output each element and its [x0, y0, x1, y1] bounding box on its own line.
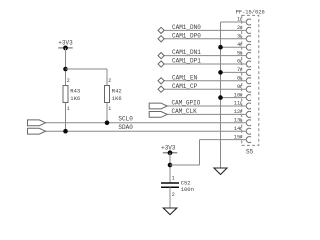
- svg-text:CAM_CLK: CAM_CLK: [172, 108, 198, 115]
- svg-text:R42: R42: [112, 88, 122, 95]
- wire SCL0 net: [46, 122, 247, 124]
- port tag CAM_CLK: [149, 112, 167, 118]
- connector S5 pin 9 contact: [246, 86, 251, 92]
- svg-text:CAM1_DP1: CAM1_DP1: [172, 58, 201, 65]
- connector S5 dashed body: [242, 15, 259, 145]
- pin number 2: [237, 25, 241, 31]
- connector S5 pin 6 contact: [246, 61, 251, 67]
- port diamond CAM1_EN: [158, 78, 164, 84]
- port tag SCL0: [28, 120, 46, 126]
- pin number 14: [234, 126, 241, 132]
- wire CAM_GPIO to pin 11: [167, 105, 246, 107]
- pin number 11: [234, 101, 241, 107]
- wire CAM1_EN to pin 8: [164, 80, 246, 82]
- svg-text:2: 2: [108, 78, 111, 84]
- pin number 6: [237, 59, 241, 65]
- svg-text:+3V3: +3V3: [58, 40, 73, 47]
- junction R42-SCL0: [105, 121, 110, 126]
- junction +3V3 / pin15 branch: [168, 163, 173, 168]
- wire GND to pin 4: [221, 46, 247, 48]
- wire CAM1_DP0 to pin 3: [164, 38, 246, 40]
- connector S5 pin 2 contact: [246, 27, 251, 33]
- resistor R43: [63, 86, 68, 103]
- wire CAM1_DN1 to pin 5: [164, 55, 246, 57]
- wire +3V3 branch horizontal: [170, 164, 200, 166]
- pin number 7: [237, 67, 241, 73]
- connector S5 pin 1 contact: [246, 19, 251, 25]
- svg-text:SCL0: SCL0: [118, 116, 133, 123]
- port diamond CAM1_DP0: [158, 36, 164, 42]
- svg-text:2: 2: [67, 78, 70, 84]
- svg-text:1: 1: [172, 176, 175, 182]
- pin number 10: [234, 92, 241, 98]
- pin number 5: [237, 50, 241, 56]
- svg-text:1: 1: [67, 106, 70, 112]
- svg-text:SDA0: SDA0: [118, 124, 133, 131]
- svg-text:S5: S5: [246, 149, 254, 156]
- svg-text:2: 2: [172, 192, 175, 198]
- pin number 3: [237, 34, 241, 40]
- wire GND to pin 10: [221, 97, 247, 99]
- wire +3V3 to pin 15: [200, 139, 247, 141]
- connector S5 pin 10 contact: [246, 95, 251, 101]
- port diamond CAM1_DN1: [158, 53, 164, 59]
- svg-text:1K6: 1K6: [112, 95, 122, 102]
- svg-text:CAM1_CP: CAM1_CP: [172, 83, 198, 90]
- svg-text:R43: R43: [70, 88, 80, 95]
- junction GND bus pin 7: [218, 70, 223, 75]
- connector S5 pin 15 contact: [246, 137, 251, 143]
- pin number 1: [237, 17, 241, 23]
- wire CAM1_DN0 to pin 2: [164, 29, 246, 31]
- junction +3V3 split: [63, 67, 68, 72]
- capacitor C52: [161, 183, 179, 187]
- connector S5 pin 8 contact: [246, 78, 251, 84]
- wire GND to pin 1: [221, 21, 247, 23]
- ground symbol GND (C52): [163, 208, 177, 215]
- svg-text:1: 1: [108, 106, 111, 112]
- connector S5 pin 3 contact: [246, 36, 251, 42]
- svg-text:+3V3: +3V3: [161, 144, 176, 151]
- wire R43 to SDA0: [65, 103, 67, 132]
- ground symbol GND (bus): [214, 168, 227, 175]
- junction GND bus pin 10: [218, 95, 223, 100]
- pin number 15: [234, 134, 241, 140]
- power +3V3 symbol (left): [58, 46, 72, 51]
- wire GND to pin 7: [221, 71, 247, 73]
- pin number 12: [234, 109, 241, 115]
- wire +3V3 to R43 top: [65, 48, 67, 86]
- junction GND bus pin 4: [218, 45, 223, 50]
- svg-text:100n: 100n: [181, 186, 194, 193]
- junction R43-SDA0: [63, 129, 68, 134]
- wire R42 to SCL0: [106, 103, 108, 123]
- wire R42 top: [106, 69, 108, 86]
- connector S5 pin 7 contact: [246, 69, 251, 75]
- wire CAM_CLK to pin 12: [167, 113, 246, 115]
- pin number 4: [237, 42, 241, 48]
- connector S5 pin 13 contact: [246, 120, 251, 126]
- svg-text:CAM1_DN0: CAM1_DN0: [172, 24, 201, 31]
- port diamond CAM1_CP: [158, 86, 164, 92]
- port tag CAM_GPIO: [149, 103, 167, 109]
- wire +3V3 to C52: [169, 153, 171, 183]
- connector S5 pin 5 contact: [246, 53, 251, 59]
- connector S5 pin 11 contact: [246, 103, 251, 109]
- wire +3V3 branch vertical to pin 15: [199, 140, 201, 165]
- wire +3V3 to R42 branch: [66, 68, 108, 70]
- pin number 8: [237, 76, 241, 82]
- wire SDA0 net: [46, 130, 247, 132]
- wire C52 to ground: [169, 187, 171, 208]
- port diamond CAM1_DN0: [158, 27, 164, 33]
- resistor R42: [105, 86, 110, 103]
- svg-text:CAM_GPIO: CAM_GPIO: [172, 100, 201, 107]
- svg-text:CAM1_DN1: CAM1_DN1: [172, 49, 201, 56]
- port diamond CAM1_DP1: [158, 61, 164, 67]
- port tag SDA0: [28, 128, 46, 134]
- svg-text:CAM1_EN: CAM1_EN: [172, 74, 198, 81]
- wire CAM1_DP1 to pin 6: [164, 63, 246, 65]
- pin number 9: [237, 84, 241, 90]
- svg-text:PF-15/026: PF-15/026: [236, 9, 265, 15]
- power +3V3 symbol (bottom): [163, 150, 177, 155]
- connector S5 pin 12 contact: [246, 111, 251, 117]
- wire GND bus vertical: [220, 22, 222, 168]
- wire CAM1_CP to pin 9: [164, 88, 246, 90]
- connector S5 pin 4 contact: [246, 44, 251, 50]
- pin number 13: [234, 118, 241, 124]
- svg-text:1K6: 1K6: [70, 95, 80, 102]
- connector S5 pin 14 contact: [246, 128, 251, 134]
- svg-text:CAM1_DP0: CAM1_DP0: [172, 32, 201, 39]
